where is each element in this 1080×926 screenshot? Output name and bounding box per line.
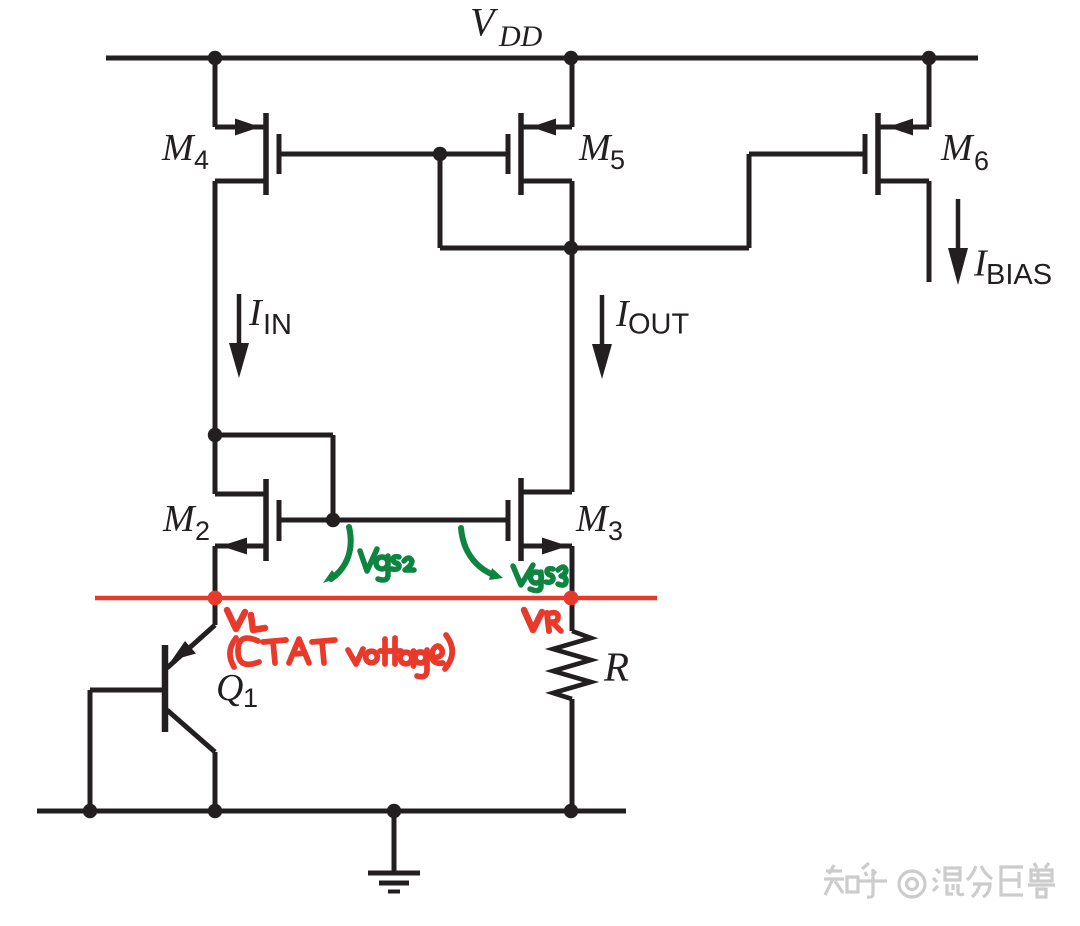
svg-text:I: I xyxy=(248,292,264,334)
svg-text:DD: DD xyxy=(498,20,543,53)
svg-text:R: R xyxy=(603,644,629,690)
svg-text:V: V xyxy=(470,0,499,45)
svg-text:1: 1 xyxy=(243,683,258,713)
svg-text:4: 4 xyxy=(194,145,209,175)
svg-text:3: 3 xyxy=(608,516,623,546)
svg-text:M: M xyxy=(161,127,196,169)
svg-text:OUT: OUT xyxy=(628,309,690,341)
svg-text:2: 2 xyxy=(195,516,210,546)
svg-text:Q: Q xyxy=(216,667,243,709)
svg-text:M: M xyxy=(162,498,197,540)
svg-text:M: M xyxy=(940,127,975,169)
svg-text:M: M xyxy=(575,498,610,540)
svg-text:IN: IN xyxy=(263,309,292,341)
svg-text:M: M xyxy=(578,127,613,169)
svg-text:6: 6 xyxy=(974,146,989,176)
svg-text:BIAS: BIAS xyxy=(986,259,1052,291)
svg-text:5: 5 xyxy=(610,145,625,175)
